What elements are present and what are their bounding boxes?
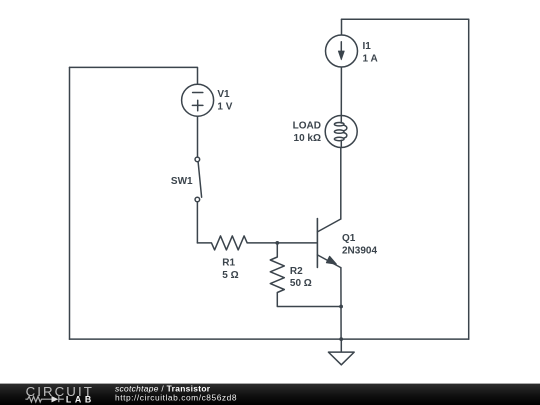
wire left vertical — [69, 67, 71, 339]
svg-text:V1: V1 — [217, 89, 230, 100]
logo resistor squiggle and diode — [25, 396, 63, 402]
wire Q1 emitter down — [340, 268, 342, 340]
svg-text:50 Ω: 50 Ω — [290, 278, 312, 289]
svg-text:LAB: LAB — [66, 394, 95, 404]
svg-text:R2: R2 — [290, 266, 303, 277]
ground — [328, 339, 354, 365]
wire V1 top to top-left corner — [70, 67, 198, 84]
voltage source V1 — [182, 84, 214, 116]
wire LOAD to I1 — [340, 67, 342, 116]
svg-text:Q1: Q1 — [342, 233, 356, 244]
node junction R2/emitter — [339, 305, 343, 309]
svg-text:1 V: 1 V — [217, 101, 232, 112]
current source I1 — [326, 35, 358, 67]
svg-text:SW1: SW1 — [171, 176, 193, 187]
svg-text:I1: I1 — [363, 41, 372, 52]
wire Q1 collector up to LOAD — [340, 148, 342, 220]
switch SW1 — [195, 157, 202, 202]
wire V1 to SW1 — [197, 116, 199, 157]
lamp LOAD — [325, 116, 357, 148]
svg-text:10 kΩ: 10 kΩ — [294, 133, 321, 144]
footer bar — [0, 384, 540, 405]
wire I1 top lead — [341, 19, 343, 35]
wire SW1 to R1 corner — [196, 202, 198, 243]
resistor R2 — [270, 243, 341, 307]
svg-text:R1: R1 — [222, 257, 235, 268]
svg-text:1 A: 1 A — [363, 53, 378, 64]
transistor Q1 — [317, 219, 340, 268]
svg-text:2N3904: 2N3904 — [342, 245, 377, 256]
node junction R1/R2/base — [275, 241, 279, 245]
wire right vertical — [468, 19, 470, 339]
node junction emitter/bottom wire — [339, 337, 343, 341]
wire node to Q1 base — [277, 242, 316, 244]
svg-text:5 Ω: 5 Ω — [222, 270, 238, 281]
labels — [171, 41, 378, 289]
resistor R1 — [197, 236, 277, 250]
svg-text:http://circuitlab.com/c856zd8: http://circuitlab.com/c856zd8 — [115, 393, 237, 403]
svg-text:LOAD: LOAD — [293, 121, 321, 132]
wire top horizontal — [342, 18, 469, 20]
wire bottom horizontal — [70, 338, 469, 340]
